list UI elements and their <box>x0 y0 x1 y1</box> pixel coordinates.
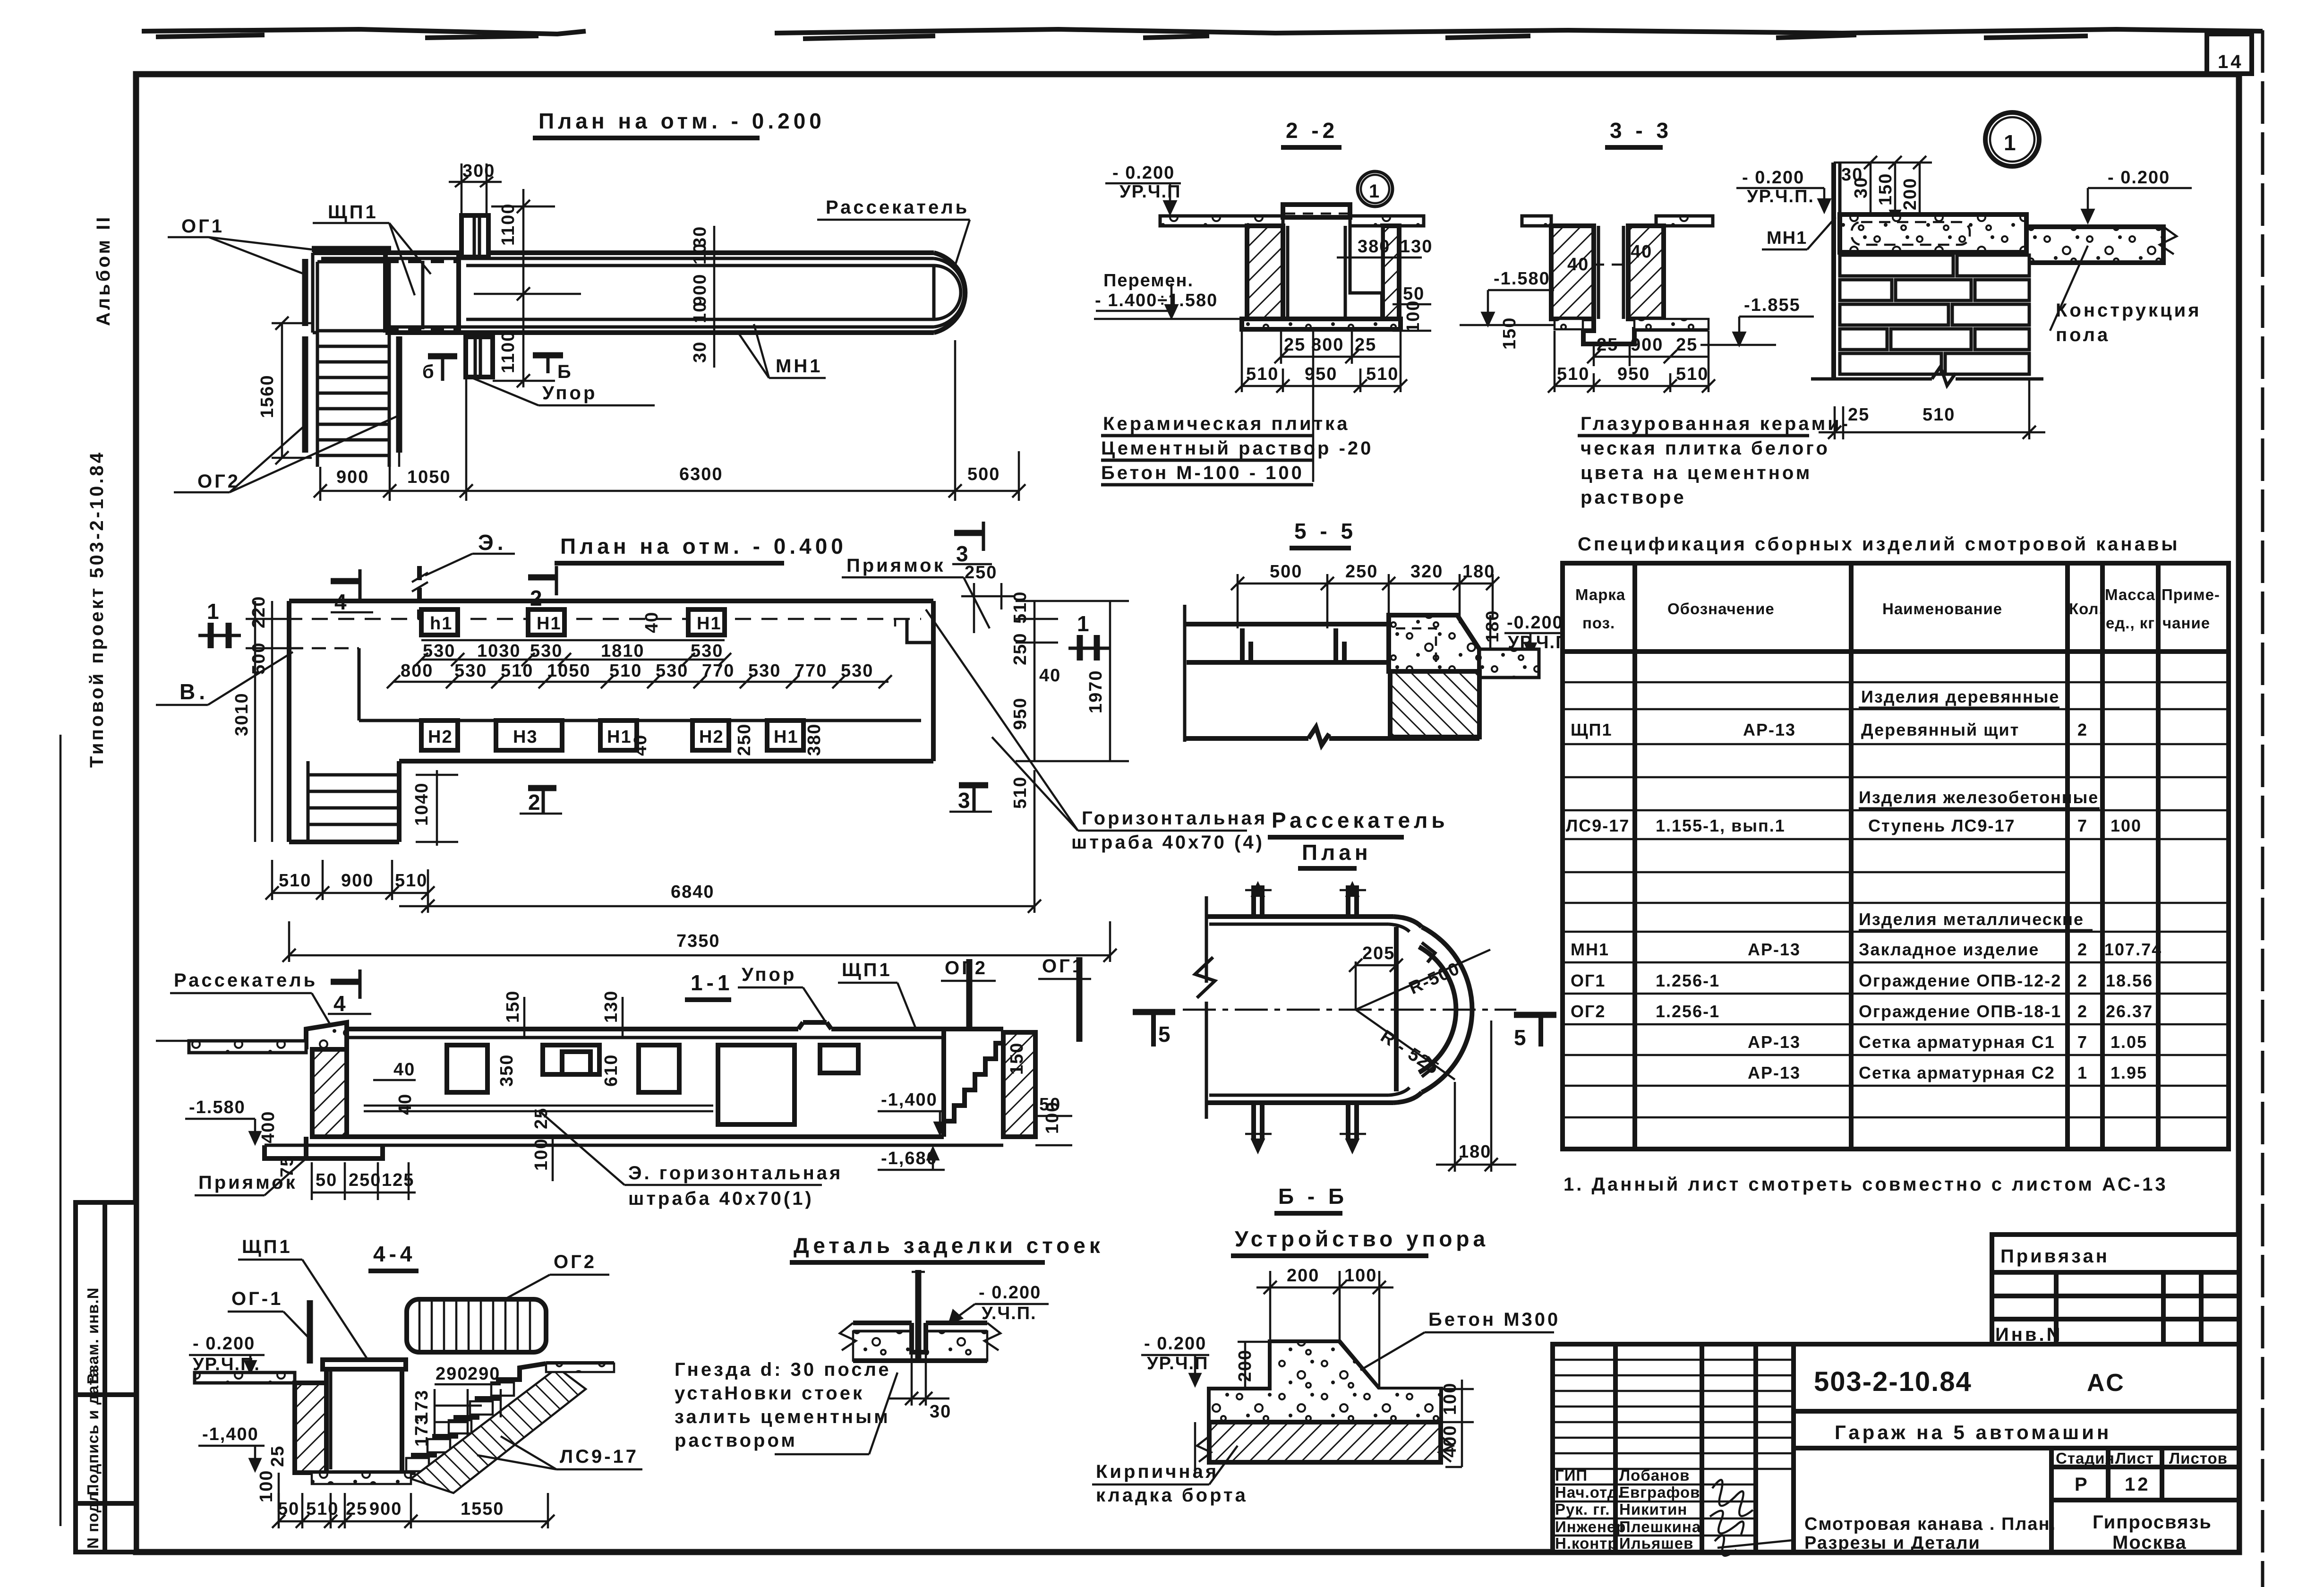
svg-text:Стадия: Стадия <box>2056 1450 2115 1467</box>
svg-text:510: 510 <box>1366 364 1399 384</box>
svg-text:Спецификация сборных изд: Спецификация сборных изделий смотровой к… <box>1578 534 2180 555</box>
svg-text:1040: 1040 <box>412 782 432 826</box>
svg-text:цвета на цементном: цвета на цементном <box>1581 463 1812 483</box>
floor right of fence <box>546 1361 614 1366</box>
svg-text:900: 900 <box>1631 335 1663 355</box>
svg-text:1.155-1, вып.1: 1.155-1, вып.1 <box>1656 816 1786 835</box>
svg-text:Типовой проект 503-2-10.84: Типовой проект 503-2-10.84 <box>86 450 107 768</box>
svg-text:510: 510 <box>279 871 311 891</box>
svg-text:50: 50 <box>316 1170 337 1190</box>
pocket around post <box>912 1323 926 1352</box>
base under pit <box>312 1473 411 1484</box>
steps <box>317 329 389 333</box>
svg-text:ЩП1: ЩП1 <box>242 1236 292 1257</box>
svg-text:Нач.отд.: Нач.отд. <box>1555 1484 1623 1501</box>
right thin wall hatched <box>1383 226 1399 319</box>
svg-text:Обозначение: Обозначение <box>1667 600 1775 618</box>
svg-text:ЩП1: ЩП1 <box>1571 720 1613 739</box>
bottom slab with sump <box>1555 319 1709 344</box>
small grid near steps <box>435 1389 501 1436</box>
svg-text:ЩП1: ЩП1 <box>328 202 378 223</box>
svg-text:Изделия железобетонные: Изделия железобетонные <box>1859 788 2099 807</box>
top dims 200 100 <box>1269 1271 1272 1342</box>
svg-text:Бетон М300: Бетон М300 <box>1428 1309 1560 1330</box>
svg-text:2: 2 <box>2077 971 2088 990</box>
200 rotated left of pedestal <box>1238 1341 1275 1343</box>
pit walls inner lines <box>1286 226 1290 319</box>
svg-text:Альбом II: Альбом II <box>93 215 114 326</box>
privyazan table <box>1992 1235 2239 1344</box>
right floor slab (konstrukcia pola) <box>2026 227 2163 263</box>
top dim row 500 250 320 180 <box>1238 583 1493 585</box>
svg-text:План на отм. - 0.400: План на отм. - 0.400 <box>560 534 847 558</box>
svg-text:510: 510 <box>1246 364 1279 384</box>
svg-text:250: 250 <box>735 723 754 756</box>
svg-text:Плешкина: Плешкина <box>1619 1518 1701 1536</box>
100 400 right rotated <box>1441 1388 1474 1390</box>
svg-text:Гипросвязь: Гипросвязь <box>2093 1512 2212 1533</box>
svg-text:510: 510 <box>1010 776 1030 809</box>
svg-text:Р: Р <box>2075 1474 2090 1495</box>
svg-text:40: 40 <box>631 734 650 756</box>
svg-text:Горизонтальная: Горизонтальная <box>1082 808 1267 829</box>
svg-text:900: 900 <box>690 274 710 306</box>
svg-text:Ограждение ОПВ-18-1: Ограждение ОПВ-18-1 <box>1859 1002 2061 1021</box>
svg-text:УР.Ч.П: УР.Ч.П <box>1119 182 1181 202</box>
pit inner lines <box>1597 226 1600 319</box>
section flag 4 top <box>331 578 360 584</box>
svg-text:ЛС9-17: ЛС9-17 <box>560 1446 639 1467</box>
section flag 5 right <box>1514 1012 1556 1018</box>
section mark B right <box>533 352 563 359</box>
dim 30 <box>911 1363 913 1406</box>
svg-text:40: 40 <box>1631 242 1652 262</box>
svg-text:Кол.: Кол. <box>2069 600 2104 618</box>
svg-text:1100: 1100 <box>498 203 518 246</box>
svg-text:Н1: Н1 <box>774 727 799 747</box>
left floor slab <box>189 1041 306 1053</box>
svg-text:Инженер: Инженер <box>1555 1518 1626 1536</box>
svg-text:1: 1 <box>1369 181 1382 202</box>
material note <box>1312 329 1315 482</box>
svg-text:Марка: Марка <box>1575 586 1625 603</box>
brick wall <box>1840 255 2029 374</box>
svg-text:залить цементным: залить цементным <box>675 1407 890 1427</box>
svg-text:Бетон М-100 - 100: Бетон М-100 - 100 <box>1101 463 1304 483</box>
svg-text:поз.: поз. <box>1582 614 1615 632</box>
svg-text:кладка борта: кладка борта <box>1096 1485 1248 1506</box>
svg-text:800: 800 <box>1311 335 1344 355</box>
railing OG2 right bar <box>396 336 402 453</box>
left boundary <box>1183 605 1187 742</box>
svg-text:Деталь заделки стоек: Деталь заделки стоек <box>794 1233 1104 1258</box>
dim row 510 950 510 <box>1242 385 1401 387</box>
bottom dims <box>279 1520 548 1523</box>
svg-text:Гнезда d: 30 после: Гнезда d: 30 после <box>675 1359 891 1380</box>
svg-text:-1.855: -1.855 <box>1744 295 1801 315</box>
svg-text:МН1: МН1 <box>1767 228 1807 248</box>
post <box>915 1270 922 1362</box>
svg-text:900: 900 <box>369 1499 402 1519</box>
svg-text:25: 25 <box>1848 405 1870 425</box>
svg-text:раствором: раствором <box>675 1430 797 1451</box>
svg-text:130: 130 <box>1400 237 1433 257</box>
svg-text:500: 500 <box>1270 562 1302 582</box>
svg-text:503-2-10.84: 503-2-10.84 <box>1814 1366 1972 1397</box>
svg-text:1.05: 1.05 <box>2110 1032 2147 1052</box>
outer right vertical line <box>2261 30 2264 1587</box>
hooks <box>1422 943 1435 962</box>
svg-text:4: 4 <box>333 991 350 1016</box>
svg-text:Лобанов: Лобанов <box>1619 1467 1690 1484</box>
svg-text:- 0.200: - 0.200 <box>979 1283 1041 1303</box>
bottom line with break <box>1185 736 1308 741</box>
svg-text:7: 7 <box>2077 1032 2088 1052</box>
svg-text:Наименование: Наименование <box>1882 600 2002 618</box>
left wall hatched <box>312 1049 347 1137</box>
svg-text:800: 800 <box>401 661 433 681</box>
svg-text:1.256-1: 1.256-1 <box>1656 1002 1720 1021</box>
svg-text:Закладное изделие: Закладное изделие <box>1859 940 2039 959</box>
svg-text:пола: пола <box>2056 325 2110 345</box>
section flag 3 bottom <box>959 782 988 789</box>
svg-text:Керамическая плитка: Керамическая плитка <box>1103 413 1350 434</box>
railing OG1 left bar <box>302 259 308 326</box>
svg-text:180: 180 <box>1483 610 1503 643</box>
svg-text:У.Ч.П.: У.Ч.П. <box>982 1304 1037 1323</box>
svg-text:510: 510 <box>501 661 533 681</box>
svg-text:100: 100 <box>1440 1382 1460 1415</box>
svg-text:УР.Ч.П.: УР.Ч.П. <box>1747 187 1814 206</box>
stairs in corridor <box>307 761 310 842</box>
concrete block with slope <box>1389 615 1479 671</box>
svg-text:100: 100 <box>1403 300 1423 333</box>
center line <box>1183 1009 1516 1011</box>
svg-text:610: 610 <box>601 1054 621 1087</box>
svg-text:173: 173 <box>412 1414 432 1447</box>
pit <box>324 1368 329 1473</box>
svg-text:- 0.200: - 0.200 <box>193 1334 255 1354</box>
svg-text:40: 40 <box>642 611 662 633</box>
svg-text:290: 290 <box>436 1364 468 1384</box>
upper upor rect <box>461 215 488 257</box>
svg-text:ОГ1: ОГ1 <box>181 216 224 237</box>
svg-text:510: 510 <box>395 871 427 891</box>
left signature table columns <box>1613 1344 1618 1552</box>
svg-text:50: 50 <box>278 1499 299 1519</box>
svg-text:1: 1 <box>2077 1063 2088 1082</box>
svg-text:МН1: МН1 <box>776 356 822 377</box>
svg-text:Н1: Н1 <box>697 614 722 634</box>
dim row 25 800 25 <box>1241 329 1243 392</box>
wall vertical edge <box>1831 163 1836 378</box>
svg-text:25: 25 <box>268 1445 288 1467</box>
svg-text:220: 220 <box>249 596 269 628</box>
svg-text:АР-13: АР-13 <box>1748 940 1801 959</box>
svg-text:2 -2: 2 -2 <box>1286 118 1338 143</box>
node circle 1 <box>1358 172 1393 206</box>
section flag 2 top <box>528 575 556 581</box>
posts top <box>1254 885 1357 917</box>
svg-text:510: 510 <box>306 1499 339 1519</box>
svg-text:Привязан: Привязан <box>2000 1246 2110 1267</box>
svg-text:2: 2 <box>2077 940 2088 959</box>
bottom dim 25 510 <box>1834 406 1836 439</box>
svg-text:Кирпичная: Кирпичная <box>1096 1461 1219 1482</box>
left floor slab <box>195 1373 295 1383</box>
svg-text:6300: 6300 <box>679 464 723 484</box>
svg-text:12: 12 <box>2125 1474 2151 1495</box>
inner left line <box>358 648 361 721</box>
svg-text:Лист: Лист <box>2115 1450 2154 1467</box>
svg-text:510: 510 <box>1557 364 1589 384</box>
bottom dim line <box>320 490 1019 492</box>
dashed mid line in pit <box>1594 264 1628 266</box>
svg-text:150: 150 <box>1007 1042 1027 1075</box>
svg-text:-1.580: -1.580 <box>1494 269 1550 289</box>
MN1 embedded dashed outline <box>1852 222 1970 245</box>
svg-text:950: 950 <box>1010 697 1030 730</box>
svg-text:- 1.400÷1.580: - 1.400÷1.580 <box>1095 291 1218 310</box>
svg-text:350: 350 <box>497 1054 517 1087</box>
svg-text:150: 150 <box>1500 317 1520 350</box>
svg-text:1050: 1050 <box>407 467 451 487</box>
svg-text:Э. горизонтальная: Э. горизонтальная <box>628 1163 843 1184</box>
horizontal shtraba line in wall <box>364 1105 713 1107</box>
left wall hatched <box>295 1383 326 1473</box>
svg-text:40: 40 <box>395 1093 415 1115</box>
svg-text:Сетка арматурная С1: Сетка арматурная С1 <box>1859 1032 2055 1052</box>
svg-text:900: 900 <box>341 871 374 891</box>
svg-text:1.95: 1.95 <box>2110 1063 2147 1082</box>
svg-text:АР-13: АР-13 <box>1743 720 1796 739</box>
svg-text:290: 290 <box>468 1364 500 1384</box>
hatched block below <box>1390 671 1479 737</box>
svg-text:Смотровая канава . План.: Смотровая канава . План. <box>1804 1514 2056 1534</box>
svg-text:100: 100 <box>2110 816 2142 835</box>
left wall hatched <box>1247 226 1283 319</box>
svg-text:1550: 1550 <box>461 1499 504 1519</box>
svg-text:3010: 3010 <box>232 692 252 736</box>
vertical dim 30/10/900/10/30 <box>713 226 716 368</box>
svg-text:250: 250 <box>1345 562 1378 582</box>
svg-text:АР-13: АР-13 <box>1748 1063 1801 1082</box>
svg-text:510: 510 <box>1676 364 1709 384</box>
svg-text:1: 1 <box>1077 611 1093 636</box>
svg-text:2: 2 <box>528 790 544 815</box>
svg-text:МН1: МН1 <box>1571 940 1609 959</box>
svg-text:100: 100 <box>531 1138 551 1171</box>
step blocks <box>406 1382 514 1471</box>
dim row under H1 boxes <box>421 639 725 642</box>
dim 180 bottom <box>1454 1082 1456 1172</box>
stadia list listov <box>2049 1448 2054 1552</box>
svg-text:5: 5 <box>1514 1025 1530 1050</box>
svg-text:1810: 1810 <box>601 641 645 661</box>
svg-text:530: 530 <box>530 641 563 661</box>
svg-text:АС: АС <box>2087 1369 2126 1397</box>
ground slope hatch under steps <box>411 1368 586 1493</box>
steps down right <box>402 1364 546 1473</box>
svg-text:Рассекатель: Рассекатель <box>1272 808 1449 832</box>
dim row 510 950 510 <box>1555 385 1709 387</box>
svg-text:1100: 1100 <box>498 331 518 373</box>
svg-text:Н.контр: Н.контр <box>1555 1535 1618 1552</box>
svg-text:1560: 1560 <box>257 374 277 418</box>
break arrows <box>840 1323 856 1350</box>
inner dashed top line <box>312 618 921 620</box>
svg-text:200: 200 <box>1287 1266 1319 1286</box>
priyamok niche right <box>907 619 933 643</box>
svg-text:1.256-1: 1.256-1 <box>1656 971 1720 990</box>
svg-text:б: б <box>422 361 436 382</box>
svg-text:-1.580: -1.580 <box>189 1098 246 1117</box>
dashed inner <box>1396 628 1436 662</box>
wood cover on top <box>1283 205 1350 217</box>
dim 300 <box>461 163 463 215</box>
lower upor rect <box>466 337 493 377</box>
svg-text:Никитин: Никитин <box>1619 1501 1687 1518</box>
svg-text:Н2: Н2 <box>699 727 724 747</box>
svg-text:500: 500 <box>967 464 1000 484</box>
svg-text:40: 40 <box>393 1060 415 1080</box>
svg-text:Н3: Н3 <box>513 727 538 747</box>
svg-text:530: 530 <box>691 641 723 661</box>
node circle 1 <box>1985 112 2039 166</box>
svg-text:Ступень ЛС9-17: Ступень ЛС9-17 <box>1868 816 2016 835</box>
outer arc <box>1422 927 1472 1092</box>
svg-text:900: 900 <box>336 467 369 487</box>
floor line <box>347 1134 944 1139</box>
svg-text:250: 250 <box>1010 633 1030 665</box>
svg-text:Листов: Листов <box>2169 1450 2228 1467</box>
svg-text:3 - 3: 3 - 3 <box>1610 118 1672 143</box>
svg-text:Евграфов: Евграфов <box>1619 1484 1700 1501</box>
svg-text:510: 510 <box>1010 591 1030 624</box>
section flag 5 left <box>1133 1009 1175 1015</box>
pedestal with slope <box>1209 1342 1441 1422</box>
svg-text:530: 530 <box>841 661 873 681</box>
right slab <box>1479 649 1539 678</box>
svg-text:14: 14 <box>2218 51 2244 72</box>
lower row boxes <box>421 721 803 750</box>
svg-text:1050: 1050 <box>547 661 591 681</box>
180 rotated right of block <box>1489 615 1492 649</box>
svg-text:- 0.200: - 0.200 <box>1144 1334 1206 1354</box>
svg-text:Гараж на 5 автомашин: Гараж на 5 автомашин <box>1835 1421 2111 1443</box>
OG2 fence plan (rounded, vertical hatch) <box>407 1299 546 1352</box>
svg-text:7: 7 <box>2077 816 2088 835</box>
left table thin rows <box>1553 1360 1794 1536</box>
svg-text:План на отм. - 0.200: План на отм. - 0.200 <box>538 109 825 133</box>
svg-text:2: 2 <box>530 586 546 610</box>
bottom dim rows <box>272 892 428 894</box>
railing OG2 left bar <box>302 336 308 453</box>
inner rect right edge <box>1394 927 1399 1091</box>
outer plan rectangle <box>289 599 933 603</box>
svg-text:380: 380 <box>804 723 824 756</box>
radius lines <box>1356 950 1490 1010</box>
dim row 25 900 25 <box>1554 331 1556 392</box>
svg-text:5: 5 <box>1158 1022 1174 1047</box>
svg-text:200: 200 <box>1900 178 1920 210</box>
svg-text:100: 100 <box>1042 1101 1062 1134</box>
svg-text:Б: Б <box>557 361 573 382</box>
6840 dim <box>399 905 1034 908</box>
svg-text:18.56: 18.56 <box>2106 971 2153 990</box>
svg-text:Упор: Упор <box>542 383 597 403</box>
svg-text:150: 150 <box>503 990 523 1023</box>
svg-text:250: 250 <box>965 563 997 583</box>
floor slab right <box>1656 216 1713 226</box>
wall outline <box>344 1029 349 1137</box>
svg-text:180: 180 <box>1462 562 1495 582</box>
svg-text:Разрезы и Детали: Разрезы и Детали <box>1804 1533 1981 1553</box>
svg-text:Устройство упора: Устройство упора <box>1235 1227 1489 1251</box>
table frame <box>1563 563 2229 1149</box>
floor slab over wall <box>1840 214 2026 252</box>
svg-text:Н1: Н1 <box>607 727 632 747</box>
left wall hatched <box>1551 226 1594 319</box>
thin outer left line <box>60 735 62 1526</box>
svg-text:400: 400 <box>1440 1425 1460 1458</box>
svg-text:25: 25 <box>1676 335 1698 355</box>
svg-text:h1: h1 <box>430 614 453 634</box>
section flag 2 bottom <box>528 785 556 791</box>
ground line under wall <box>1811 377 1932 381</box>
inner solid bottom line <box>359 719 921 722</box>
section flag 4 bottom <box>331 979 360 985</box>
svg-text:6840: 6840 <box>671 882 715 902</box>
svg-text:1030: 1030 <box>477 641 521 661</box>
svg-text:- 0.200: - 0.200 <box>1742 168 1804 188</box>
svg-text:План: План <box>1302 840 1372 865</box>
svg-text:770: 770 <box>795 661 827 681</box>
svg-text:530: 530 <box>748 661 781 681</box>
svg-text:Изделия деревянные: Изделия деревянные <box>1861 687 2059 706</box>
section flag 1 left <box>208 623 214 648</box>
svg-text:ед., кг: ед., кг <box>2106 614 2155 632</box>
svg-text:Приямок: Приямок <box>846 555 946 576</box>
svg-text:Изделия металлические: Изделия металлические <box>1859 909 2084 929</box>
svg-text:ОГ1: ОГ1 <box>1571 971 1606 990</box>
section flag 1 right <box>1077 635 1083 661</box>
dim 1100 vertical line <box>522 189 525 387</box>
svg-text:-1,400: -1,400 <box>202 1424 259 1444</box>
svg-text:950: 950 <box>1305 364 1337 384</box>
svg-text:устаНовки стоек: устаНовки стоек <box>675 1383 864 1404</box>
svg-text:Конструкция: Конструкция <box>2056 300 2202 321</box>
openings <box>447 1045 858 1124</box>
svg-text:Перемен.: Перемен. <box>1103 271 1194 291</box>
trench outline <box>313 250 934 255</box>
middle dim row <box>393 681 889 683</box>
svg-text:Масса: Масса <box>2105 586 2155 603</box>
svg-text:5 - 5: 5 - 5 <box>1294 519 1357 543</box>
svg-text:Упор: Упор <box>742 964 796 985</box>
svg-text:Э.: Э. <box>478 530 507 555</box>
header bottom <box>1563 649 2229 654</box>
svg-text:В.: В. <box>179 679 209 704</box>
svg-text:ЩП1: ЩП1 <box>842 960 892 980</box>
svg-text:штраба 40х70 (4): штраба 40х70 (4) <box>1071 832 1265 853</box>
inner arc <box>1419 947 1456 1072</box>
7350 dim <box>289 954 1110 957</box>
stairs right <box>944 1043 1003 1137</box>
svg-text:Б - Б: Б - Б <box>1278 1184 1348 1209</box>
floor slab left <box>1160 216 1283 226</box>
posts <box>1242 628 1344 662</box>
